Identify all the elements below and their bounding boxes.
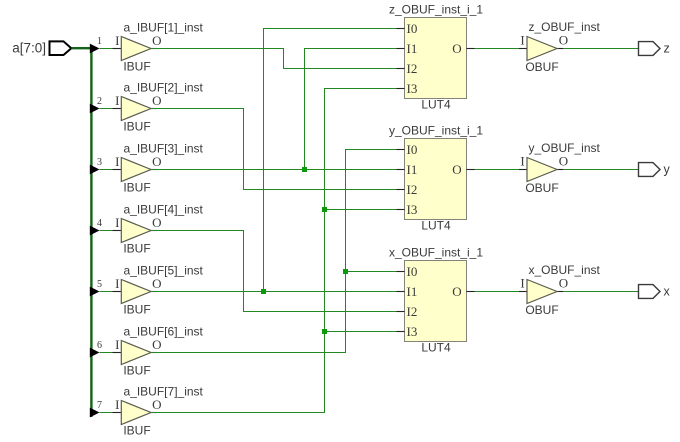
svg-text:y_OBUF_inst_i_1: y_OBUF_inst_i_1: [389, 124, 483, 138]
svg-text:I: I: [115, 337, 119, 352]
wire bus a[7:0] vertical: [90, 47, 92, 417]
svg-text:O: O: [559, 154, 568, 169]
svg-text:O: O: [152, 154, 161, 169]
svg-text:O: O: [152, 397, 161, 412]
junction dot a7/yI3: [322, 207, 327, 212]
svg-text:LUT4: LUT4: [421, 98, 451, 112]
wire bus tap 2 to IBUF: [100, 108, 113, 110]
wire bus tap 1 to IBUF: [100, 48, 113, 50]
svg-text:I3: I3: [407, 202, 418, 217]
bus tap arrow 2: [90, 96, 102, 113]
svg-text:a_IBUF[4]_inst: a_IBUF[4]_inst: [124, 203, 204, 217]
svg-text:I3: I3: [407, 324, 418, 339]
svg-text:IBUF: IBUF: [123, 242, 150, 256]
svg-text:I2: I2: [407, 61, 418, 76]
bus tap arrow 5: [90, 279, 102, 296]
wire net a_IBUF[5] branch to z_LUT I0: [264, 29, 397, 292]
wire net a_IBUF[7] riser to z_LUT I3: [151, 89, 397, 413]
svg-text:I: I: [115, 397, 119, 412]
wire net OBUF z to port: [563, 48, 638, 50]
wire bus tap 5 to IBUF: [100, 291, 113, 293]
svg-text:I1: I1: [407, 162, 418, 177]
buffer a_IBUF[1]_inst: [113, 21, 204, 74]
wire bus a[7:0] horizontal: [71, 47, 97, 49]
input port a[7:0]: [12, 41, 71, 56]
buffer a_IBUF[5]_inst: [113, 264, 204, 317]
svg-text:I0: I0: [407, 142, 418, 157]
svg-text:I: I: [520, 154, 524, 169]
svg-text:I: I: [520, 276, 524, 291]
svg-text:OBUF: OBUF: [525, 60, 558, 74]
buffer y_OBUF_inst: [519, 141, 601, 195]
buffer a_IBUF[3]_inst: [113, 142, 204, 195]
svg-text:2: 2: [97, 96, 102, 107]
svg-text:4: 4: [97, 218, 102, 229]
svg-text:I2: I2: [407, 304, 418, 319]
svg-text:x_OBUF_inst_i_1: x_OBUF_inst_i_1: [389, 246, 483, 260]
svg-text:O: O: [152, 93, 161, 108]
svg-text:O: O: [152, 276, 161, 291]
wire net a_IBUF[4] to x_LUT I2: [151, 231, 397, 312]
wire net a_IBUF[6] riser to y_LUT I0: [151, 150, 397, 353]
junction dot a6/xI0: [343, 269, 348, 274]
svg-text:I2: I2: [407, 182, 418, 197]
svg-text:OBUF: OBUF: [525, 303, 558, 317]
svg-text:O: O: [452, 284, 461, 299]
output port x: [639, 285, 671, 299]
bus tap arrow 1: [90, 36, 102, 53]
svg-text:IBUF: IBUF: [123, 303, 150, 317]
svg-text:I: I: [115, 276, 119, 291]
LUT4 z_OBUF_inst_i_1: [389, 3, 483, 112]
svg-text:1: 1: [97, 36, 102, 47]
wire net OBUF x to port: [563, 291, 638, 293]
svg-text:a_IBUF[3]_inst: a_IBUF[3]_inst: [124, 142, 204, 156]
svg-text:I: I: [115, 215, 119, 230]
LUT4 y_OBUF_inst_i_1: [389, 124, 483, 233]
svg-text:5: 5: [97, 279, 102, 290]
buffer a_IBUF[2]_inst: [113, 81, 204, 134]
svg-text:a_IBUF[1]_inst: a_IBUF[1]_inst: [124, 21, 204, 35]
svg-text:6: 6: [97, 340, 102, 351]
output port y: [639, 163, 671, 177]
svg-text:I: I: [115, 93, 119, 108]
svg-text:I: I: [115, 154, 119, 169]
svg-text:I0: I0: [407, 21, 418, 36]
wire net a_IBUF[5] to x_LUT I1: [151, 291, 397, 293]
svg-text:IBUF: IBUF: [123, 120, 150, 134]
svg-text:O: O: [452, 41, 461, 56]
wire net a_IBUF[1] to z_LUT I2: [151, 49, 397, 69]
svg-text:a[7:0]: a[7:0]: [12, 41, 46, 56]
svg-text:7: 7: [97, 400, 102, 411]
buffer z_OBUF_inst: [519, 20, 601, 74]
buffer a_IBUF[6]_inst: [113, 325, 204, 378]
wire bus tap 6 to IBUF: [100, 352, 113, 354]
bus tap arrow 4: [90, 218, 102, 235]
LUT4 x_OBUF_inst_i_1: [389, 246, 483, 355]
svg-text:x: x: [664, 285, 671, 299]
svg-text:I1: I1: [407, 284, 418, 299]
wire net a_IBUF[3] branch to z_LUT I1: [305, 49, 397, 170]
svg-text:O: O: [152, 337, 161, 352]
svg-text:LUT4: LUT4: [421, 341, 451, 355]
svg-text:IBUF: IBUF: [123, 364, 150, 378]
buffer x_OBUF_inst: [519, 263, 601, 317]
wire net z_LUT O to OBUF: [475, 48, 520, 50]
svg-text:IBUF: IBUF: [123, 181, 150, 195]
svg-text:O: O: [559, 33, 568, 48]
output port z: [639, 42, 670, 56]
svg-text:I: I: [115, 33, 119, 48]
svg-text:3: 3: [97, 157, 102, 168]
wire bus tap 7 to IBUF: [100, 412, 113, 414]
wire net y_LUT O to OBUF: [475, 169, 520, 171]
svg-text:O: O: [559, 276, 568, 291]
wire net a_IBUF[7] branch to x_LUT I3: [325, 331, 397, 333]
wire bus tap 3 to IBUF: [100, 169, 113, 171]
svg-text:a_IBUF[2]_inst: a_IBUF[2]_inst: [124, 81, 204, 95]
svg-text:I1: I1: [407, 41, 418, 56]
svg-text:O: O: [152, 33, 161, 48]
svg-text:I: I: [520, 33, 524, 48]
svg-text:a_IBUF[7]_inst: a_IBUF[7]_inst: [124, 385, 204, 399]
svg-text:z: z: [664, 42, 670, 56]
bus tap arrow 3: [90, 157, 102, 174]
svg-text:z_OBUF_inst_i_1: z_OBUF_inst_i_1: [389, 3, 483, 17]
junction dot a3/zI1: [302, 167, 307, 172]
wire net OBUF y to port: [563, 169, 638, 171]
buffer a_IBUF[7]_inst: [113, 385, 204, 438]
svg-text:y: y: [664, 163, 671, 177]
buffer a_IBUF[4]_inst: [113, 203, 204, 256]
svg-text:a_IBUF[5]_inst: a_IBUF[5]_inst: [124, 264, 204, 278]
svg-text:IBUF: IBUF: [123, 424, 150, 438]
svg-text:I3: I3: [407, 81, 418, 96]
svg-text:LUT4: LUT4: [421, 219, 451, 233]
svg-text:I0: I0: [407, 264, 418, 279]
junction dot a7/xI3: [322, 329, 327, 334]
wire net a_IBUF[3] to y_LUT I1: [151, 169, 397, 171]
svg-text:OBUF: OBUF: [525, 181, 558, 195]
wire net a_IBUF[6] branch to x_LUT I0: [346, 271, 397, 273]
bus tap arrow 6: [90, 340, 102, 357]
wire net x_LUT O to OBUF: [475, 291, 520, 293]
wire bus tap 4 to IBUF: [100, 230, 113, 232]
svg-text:O: O: [152, 215, 161, 230]
junction dot a5/zI0: [261, 289, 266, 294]
svg-text:a_IBUF[6]_inst: a_IBUF[6]_inst: [124, 325, 204, 339]
wire net a_IBUF[7] branch to y_LUT I3: [325, 209, 397, 211]
svg-text:O: O: [452, 162, 461, 177]
bus tap arrow 7: [90, 400, 102, 417]
svg-text:IBUF: IBUF: [123, 60, 150, 74]
wire net a_IBUF[2] to y_LUT I2: [151, 109, 397, 190]
